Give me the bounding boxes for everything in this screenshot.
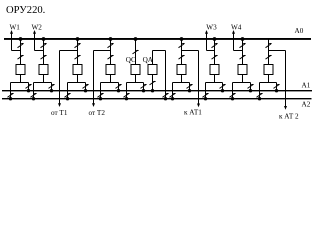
wire bay T1 from bus A0 down to breaker: [77, 39, 79, 65]
wire bay W2 breaker to bridge: [43, 75, 45, 83]
disconnector QS (bay AT1, bus A0 side): [179, 44, 185, 48]
wire bay AT1 from bus A0 down to breaker: [181, 39, 183, 65]
wire bay T1 left leg to bus A2: [67, 83, 69, 99]
disconnector QS (bay W1 to bus A1): [26, 85, 32, 89]
svg-text:ОРУ220.: ОРУ220.: [6, 5, 45, 16]
connection to к АТ 2 with arrow: [284, 51, 287, 110]
disconnector QS (bay QC): [133, 50, 139, 54]
wire bay W1 left leg to bus A2: [10, 83, 12, 99]
wire bay W2 left leg to bus A2: [33, 83, 35, 99]
wire bridge of bay T2: [101, 82, 119, 84]
svg-text:W3: W3: [206, 24, 217, 32]
connection to от Т1 with arrow: [58, 51, 61, 108]
wire bridge of bay QC: [127, 82, 144, 84]
disconnector QS (bay T2, breaker side): [108, 55, 114, 59]
wire bridge of bay W1: [11, 82, 29, 84]
disconnector QS (bay W2, bus A0 side): [41, 44, 47, 48]
disconnector QS (bay AT2, bus A0 side): [266, 44, 272, 48]
svg-text:QC: QC: [126, 56, 136, 64]
disconnector QS (bay T1, bus A0 side): [75, 44, 81, 48]
wire bay QC right leg to bus A1: [143, 83, 145, 91]
disconnector QS (bay T1 to bus A1): [83, 85, 89, 89]
wire bridge of bay W4: [233, 82, 251, 84]
disconnector QS (bay AT1 to bus A1): [187, 85, 193, 89]
wire bay W4 right leg to bus A1: [250, 83, 252, 91]
wire joining line W3 to bay: [207, 50, 215, 52]
wire bay W3 from bus A0 down to breaker: [214, 39, 216, 65]
disconnector QS (bay W3 to bus A2): [203, 94, 209, 98]
node: bay T2 on bus A1: [117, 89, 120, 92]
disconnector QS (bay W2, breaker side): [41, 55, 47, 59]
wire bay W1 breaker to bridge: [20, 75, 22, 83]
circuit breaker Q (bay W3): [210, 65, 219, 75]
wire bay T1 right leg to bus A1: [85, 83, 87, 91]
wire bridge of bay T1: [68, 82, 86, 84]
node: bay AT1 on bus A2: [171, 97, 174, 100]
disconnector QS (bay W4 to bus A2): [230, 94, 236, 98]
wire joining line W4 to bay: [234, 50, 243, 52]
wire joining line W2 to bay: [35, 50, 44, 52]
node: bay W4 connection to bus A0: [241, 37, 245, 41]
node: bay W1 connection to bus A0: [19, 37, 23, 41]
node: bay T1 on bus A1: [84, 89, 87, 92]
wire bay QC from bus A0 down to breaker: [135, 39, 137, 65]
svg-text:A0: A0: [295, 27, 304, 35]
circuit breaker Q (bay AT1): [177, 65, 186, 75]
wire bay T2 right leg to bus A1: [118, 83, 120, 91]
disconnector QS (bay W2 to bus A1): [49, 85, 55, 89]
wire bay QC breaker to bridge: [135, 75, 137, 83]
node: bay W1 on bus A1: [27, 89, 30, 92]
node: bay T2 on bus A2: [99, 97, 102, 100]
node: bay W4 on bus A1: [249, 89, 252, 92]
wire bay W1 right leg to bus A1: [28, 83, 30, 91]
wire bay T2 from bus A0 down to breaker: [110, 39, 112, 65]
wire bay W3 left leg to bus A2: [205, 83, 207, 99]
node: bay QC on bus A2: [125, 97, 128, 100]
disconnector QS (bay T1 to bus A2): [65, 94, 71, 98]
disconnector QS (bay W4 to bus A1): [248, 85, 254, 89]
disconnector QS (bay W3 to bus A1): [220, 85, 226, 89]
disconnector QS (bay W3, breaker side): [212, 55, 218, 59]
svg-text:QA: QA: [143, 56, 154, 64]
wire QA breaker top over to right leg: [153, 51, 166, 99]
circuit breaker Q (bay T1): [73, 65, 82, 75]
line W4 with arrow (outgoing overhead line): [232, 30, 235, 51]
wire QA breaker bottom to bus A1: [152, 75, 154, 91]
disconnector QS (bay AT2 to bus A2): [257, 94, 263, 98]
wire tap from bay to к АТ 2: [269, 50, 286, 52]
disconnector QS (bay T2 to bus A1): [116, 85, 122, 89]
wire bay T2 left leg to bus A2: [100, 83, 102, 99]
wire bridge of bay W2: [34, 82, 52, 84]
busbar A1 (main bus 1): [2, 90, 312, 91]
wire tap from bay to от Т1: [60, 50, 78, 52]
connection to от Т2 with arrow: [92, 51, 95, 108]
wire bay T2 breaker to bridge: [110, 75, 112, 83]
node: bay QC on bus A1: [142, 89, 145, 92]
svg-text:к АТ1: к АТ1: [184, 109, 202, 117]
line W3 with arrow (outgoing overhead line): [205, 30, 208, 51]
connection to к АТ1 with arrow: [197, 51, 200, 108]
wire bay AT2 left leg to bus A2: [259, 83, 261, 99]
svg-text:W2: W2: [32, 23, 43, 31]
node: bay W2 on bus A1: [50, 89, 53, 92]
node: bay W2 connection to bus A0: [42, 37, 46, 41]
svg-text:к АТ 2: к АТ 2: [279, 112, 299, 120]
svg-text:от Т2: от Т2: [89, 109, 106, 117]
wire bay W3 right leg to bus A1: [222, 83, 224, 91]
disconnector QS (bay W3, bus A0 side): [212, 44, 218, 48]
disconnector QS (bay W2 to bus A2): [31, 94, 37, 98]
node: bay W3 on bus A2: [204, 97, 207, 100]
node: QA on bus A1: [151, 89, 154, 92]
wire bay QC left leg to bus A2: [126, 83, 128, 99]
wire bay AT1 breaker to bridge: [181, 75, 183, 83]
wire bay T1 breaker to bridge: [77, 75, 79, 83]
node: bay W4 on bus A2: [231, 97, 234, 100]
wire bay W4 breaker to bridge: [242, 75, 244, 83]
disconnector QS (bay AT2 to bus A1): [274, 85, 280, 89]
disconnector QS (QA to bus A2): [163, 94, 169, 98]
node: bay AT1 on bus A1: [188, 89, 191, 92]
svg-text:от Т1: от Т1: [51, 109, 68, 117]
node: bay W3 connection to bus A0: [213, 37, 217, 41]
disconnector QS (bay W1 to bus A2): [8, 94, 14, 98]
wire tap from bay to от Т2: [94, 50, 111, 52]
node: bay T1 connection to bus A0: [76, 37, 80, 41]
circuit breaker Q (bay T2): [106, 65, 115, 75]
node: bay AT2 on bus A2: [258, 97, 261, 100]
node: bay T1 on bus A2: [66, 97, 69, 100]
svg-text:A1: A1: [302, 82, 311, 90]
wire bridge of bay AT1: [173, 82, 190, 84]
disconnector QS (bay W1, bus A0 side): [18, 44, 24, 48]
disconnector QS (bay QC to bus A1): [141, 85, 147, 89]
disconnector QS (bay T2, bus A0 side): [108, 44, 114, 48]
disconnector QS (bay T2 to bus A2): [98, 94, 104, 98]
line W2 with arrow (outgoing overhead line): [33, 30, 36, 51]
node: bay AT2 on bus A1: [275, 89, 278, 92]
circuit breaker Q (bay W1): [16, 65, 25, 75]
node: bay W3 on bus A1: [221, 89, 224, 92]
wire bay W4 from bus A0 down to breaker: [242, 39, 244, 65]
wire bay W2 right leg to bus A1: [51, 83, 53, 91]
wire bay AT2 from bus A0 down to breaker: [268, 39, 270, 65]
wire bay W2 from bus A0 down to breaker: [43, 39, 45, 65]
wire bay W3 breaker to bridge: [214, 75, 216, 83]
disconnector QS (bay AT2, breaker side): [266, 55, 272, 59]
wire joining line W1 to bay: [12, 50, 21, 52]
wire bay AT1 left leg to bus A2: [172, 83, 174, 99]
node: bay W2 on bus A2: [32, 97, 35, 100]
disconnector QS (bay W1, breaker side): [18, 55, 24, 59]
wire bay W1 from bus A0 down to breaker: [20, 39, 22, 65]
disconnector QS (QA to bus A1): [150, 81, 156, 85]
wire bay AT1 right leg to bus A1: [189, 83, 191, 91]
node: bay W1 on bus A2: [9, 97, 12, 100]
wire bay W4 left leg to bus A2: [232, 83, 234, 99]
wire bridge of bay AT2: [260, 82, 277, 84]
circuit breaker Q (bay AT2): [264, 65, 273, 75]
svg-text:W1: W1: [10, 23, 21, 31]
circuit breaker Q (bay W2): [39, 65, 48, 75]
wire bridge of bay W3: [206, 82, 223, 84]
disconnector QS (bay T1, breaker side): [75, 55, 81, 59]
svg-text:W4: W4: [231, 24, 242, 32]
disconnector QS (bay W4, bus A0 side): [240, 44, 246, 48]
node: bay QC connection to bus A0: [134, 37, 138, 41]
svg-text:A2: A2: [302, 100, 311, 108]
circuit breaker Q (bay W4): [238, 65, 247, 75]
circuit breaker Q (bay QC): [131, 65, 140, 75]
disconnector QS (bay W4, breaker side): [240, 55, 246, 59]
disconnector QS (bay QC to bus A2): [124, 94, 130, 98]
node: bay AT1 connection to bus A0: [180, 37, 184, 41]
disconnector QS (bay AT1 to bus A2): [170, 94, 176, 98]
wire tap from bay to к АТ1: [182, 50, 199, 52]
wire bay AT2 breaker to bridge: [268, 75, 270, 83]
circuit breaker QA: [148, 65, 157, 75]
wire bay AT2 right leg to bus A1: [276, 83, 278, 91]
busbar A2 (main bus 2): [2, 98, 312, 99]
disconnector QS (bay AT1, breaker side): [179, 55, 185, 59]
line W1 with arrow (outgoing overhead line): [10, 30, 13, 51]
node: QA on bus A2: [164, 97, 167, 100]
node: bay T2 connection to bus A0: [109, 37, 113, 41]
busbar A0 (bypass bus): [4, 38, 311, 40]
